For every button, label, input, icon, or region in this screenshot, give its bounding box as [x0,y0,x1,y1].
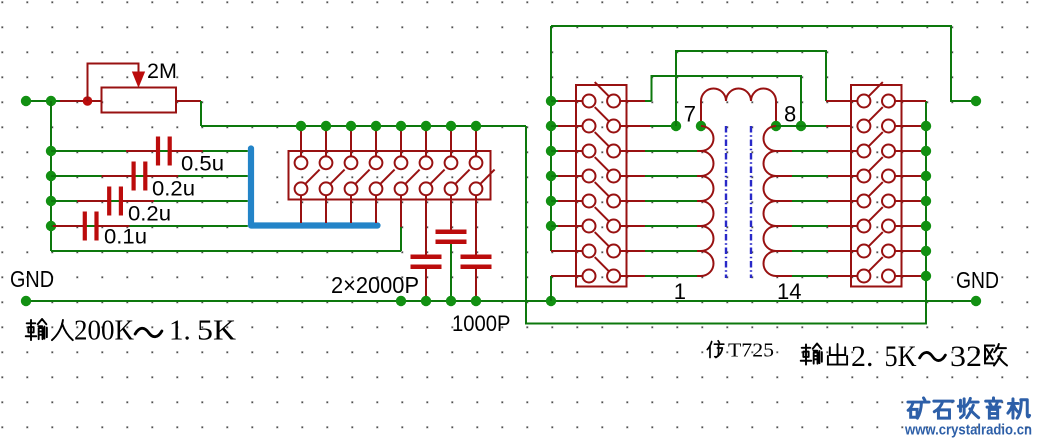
svg-text:GND: GND [10,266,54,292]
svg-text:2M: 2M [147,59,177,83]
switch bank S3 box (8 switches) [851,85,902,287]
node pin7 link [671,121,681,131]
wire pot output down to selector rail [200,101,202,126]
node selector rail col 4 [371,121,381,131]
wire S2-3 to winding tap y=151 [620,150,645,152]
node right bus row 7 [921,246,931,256]
node cap row y=201 [46,196,56,206]
wire right winding tap y=276 to S3-8 [776,275,792,277]
wire switch cols 1-4 to blue bus [300,195,302,223]
node selector rail col 5 [396,121,406,131]
wire link A: left bus to top-right terminal [551,26,976,101]
node GND bus x=401 [396,296,406,306]
wire GND to S2-8 (pin1 tap) [551,275,583,277]
wire switch col5 direct (no cap) [400,195,402,227]
svg-text:8: 8 [784,102,796,127]
capacitor C5 2000P (col6) [425,195,427,254]
switch S2-8 [583,270,596,283]
capacitor C6 2000P (col8) [475,195,477,254]
wire cap row 2 [51,175,248,177]
wire cap common bottom to switch col5 [51,250,401,252]
switch S3-5 [857,195,870,208]
svg-text:1000P: 1000P [452,311,511,336]
wire S3-5 to right bus [895,200,926,202]
node pin8 link [796,121,806,131]
svg-text:0.5u: 0.5u [181,152,224,176]
switch S1-6 column [425,126,427,156]
switch S1-2 column [325,126,327,156]
svg-text:2.: 2. [851,340,874,373]
switch bank S2 box (8 switches) [576,85,627,287]
svg-text:2×2000P: 2×2000P [331,272,419,298]
capacitor C4 0.1u [83,212,87,241]
wire wiper loop [88,64,139,102]
node left bus row 4 [546,171,556,181]
switch bank S1 box (8 switches) [289,151,491,200]
node left bus row 2 [546,121,556,131]
wire selector top rail [201,125,526,127]
wire S3-4 to right bus [895,175,926,177]
wire left bus to S2-4 [551,175,558,177]
wire left bank common bus [550,26,552,251]
node selector rail col 1 [296,121,306,131]
wire left bus to S2-2 [551,125,558,127]
label input range 输入200K～1.5K [26,319,47,340]
node left bus row 6 [546,221,556,231]
wire left bus to S2-5 [551,200,558,202]
switch S1-3 column [350,126,352,156]
wire left bus to S2-3 [551,150,558,152]
switch S2-1 [583,95,596,108]
wire link C: S2-1 to pin8 [652,76,802,126]
wire S2-4 to winding tap y=176 [620,175,645,177]
node cap row y=176 [46,171,56,181]
wire right winding tap y=201 to S3-5 [776,200,792,202]
wire input left [26,100,60,102]
capacitor C3 0.2u [107,187,111,216]
svg-text:0.2u: 0.2u [128,202,171,226]
wire S3-2 to right bus [895,125,926,127]
node selector rail col 3 [346,121,356,131]
switch S3-4 [857,170,870,183]
svg-text:7: 7 [684,102,696,127]
wire S2-6 to winding tap y=226 [620,225,645,227]
wire left bus to S2-1 [551,100,558,102]
switch S2-2 [583,120,596,133]
switch S2-3 [583,145,596,158]
label 仿T725 [707,341,724,358]
node selector rail col 7 [446,121,456,131]
wire S2-7 to winding tap y=251 [620,250,645,252]
svg-text:GND: GND [956,267,999,293]
switch S1-7 column [450,126,452,156]
node right bus row 6 [921,221,931,231]
node GND bus x=426 [421,296,431,306]
wire pin8 tap to right bank row2 [776,125,826,127]
capacitor C7 1000P (col7) [450,195,452,230]
node right bus row 2 [921,121,931,131]
wire left bus to S2-6 [551,225,558,227]
node cap row y=151 [46,146,56,156]
wire GND bus [26,300,976,302]
wire link B: pin7 to right bank row1 [676,51,826,126]
transformer T1 left winding (pin 7 to pin 1) [701,126,714,276]
svg-text:T725: T725 [728,340,774,362]
switch S3-7 [857,245,870,258]
wire right winding tap y=251 to S3-7 [776,250,792,252]
node input terminal [21,96,31,106]
node left bus row 5 [546,196,556,206]
switch S3-3 [857,145,870,158]
wire pot output [176,100,201,102]
wire cap row 4 [51,225,248,227]
wire cap common vertical [50,101,52,251]
capacitor C2 0.2u [132,162,136,191]
node GND bus x=551 [546,296,556,306]
switch S1-8 column [475,126,477,156]
node pin 7 [696,121,706,131]
switch S3-2 [857,120,870,133]
wire S3-8 to right bus [895,275,926,277]
potentiometer R1 body [102,88,177,113]
svg-text:1: 1 [674,279,686,304]
wire right winding tap y=151 to S3-3 [776,150,792,152]
switch S2-4 [583,170,596,183]
wire right winding tap y=176 to S3-4 [776,175,792,177]
node right bus row 3 [921,146,931,156]
node selector rail col 6 [421,121,431,131]
transformer T1 right winding (pin 8 to pin 14) [764,126,777,276]
node selector rail col 2 [321,121,331,131]
wire left bus corner to S2-7 [551,250,583,252]
transformer T1 core (dashed) [725,126,727,278]
node cap row y=226 [46,221,56,231]
node cap-bus junction [46,96,56,106]
node left bus row 1 [546,96,556,106]
svg-text:1.: 1. [169,315,191,347]
switch S1-1 column [300,126,302,156]
svg-text:5K: 5K [197,315,236,347]
potentiometer wiper arrow [133,72,145,87]
wire S3-1 to right bus [895,100,926,102]
switch S3-6 [857,220,870,233]
wire link B into S3-1 [826,100,857,102]
capacitor C1 0.5u [156,137,160,166]
node GND bus x=476 [471,296,481,306]
node GND bus x=976 [971,296,981,306]
node pin 8 [771,121,781,131]
node right bus row 5 [921,196,931,206]
blue selector bus (thick) [251,149,378,226]
wire S3-3 to right bus [895,150,926,152]
wire S2-8 to winding tap y=276 [620,275,645,277]
svg-text:32: 32 [950,340,982,373]
svg-text:14: 14 [777,279,801,304]
switch S1-4 column [375,126,377,156]
wire cap row 3 [51,200,248,202]
wire right winding tap y=226 to S3-6 [776,225,792,227]
node GND bus x=451 [446,296,456,306]
transformer T1 primary top winding (pins 7-8) [701,89,776,127]
logo 矿石收音机 [908,398,929,418]
svg-text:5K: 5K [885,340,917,373]
node GND bus x=26 [21,296,31,306]
wire selector rail to right bus (bottom route) [526,101,926,324]
switch S3-1 [857,95,870,108]
wire to potentiometer [60,100,101,102]
wire S3-6 to right bus [895,225,926,227]
wire S2-1 to link C [620,100,645,102]
svg-text:0.1u: 0.1u [104,225,147,249]
switch S3-8 [857,270,870,283]
node right bus row 4 [921,171,931,181]
switch S2-6 [583,220,596,233]
svg-text:www.crystalradio.cn: www.crystalradio.cn [904,423,1032,439]
wire cap row 1 [51,150,248,152]
node left bus row 3 [546,146,556,156]
svg-text:200K: 200K [74,315,134,347]
wire S3-7 to right bus [895,250,926,252]
node right bus row 8 [921,271,931,281]
node top-right terminal [971,96,981,106]
switch S1-5 column [400,126,402,156]
wire S2-2 to pin 7 [620,125,650,127]
wire S2-5 to winding tap y=201 [620,200,645,202]
node selector rail col 8 [471,121,481,131]
switch S2-5 [583,195,596,208]
label output range 输出2.5K～32欧 [801,343,822,364]
node wiper junction (red) [83,96,93,106]
svg-text:0.2u: 0.2u [152,177,195,201]
switch S2-7 [583,245,596,258]
